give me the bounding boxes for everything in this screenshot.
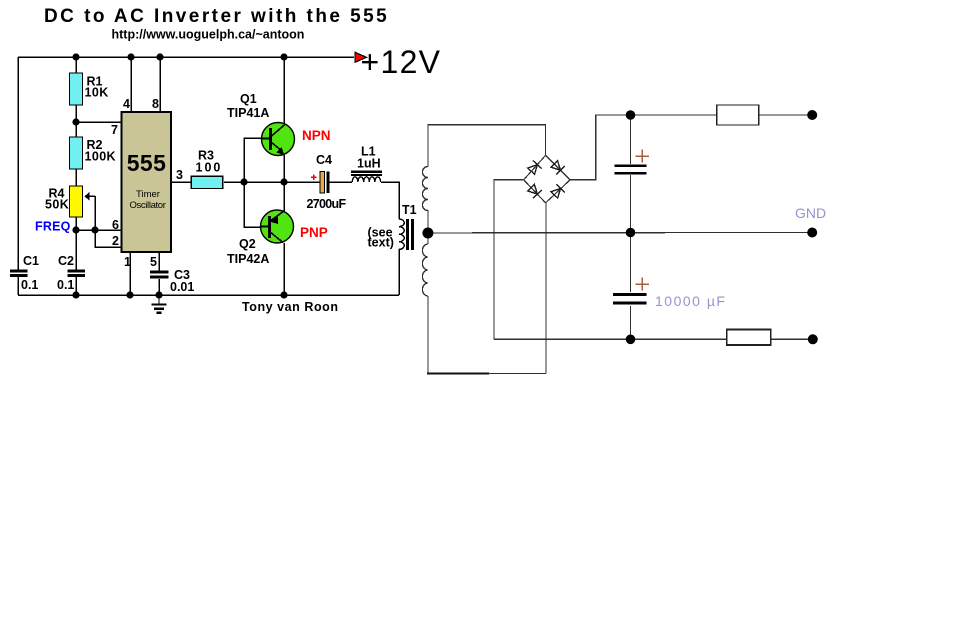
fuse F2 bottom: [727, 330, 771, 346]
node dot top rail cap junction: [626, 110, 636, 120]
transistor Q1 TIP41A NPN: [227, 92, 295, 156]
op-amp U1 555 timer chip: [122, 112, 172, 252]
wire top +12V rail: [18, 56, 354, 58]
node dot wiper pin6: [91, 226, 98, 233]
wire bottom rail fuse to terminal: [771, 338, 813, 340]
svg-text:3: 3: [176, 168, 183, 182]
node dot bottom rail cap junction: [626, 335, 636, 345]
node dot top rail pin4: [127, 53, 134, 60]
diode D4 symbol: [550, 184, 565, 199]
svg-text:100K: 100K: [85, 150, 116, 164]
wire bottom rail: [494, 338, 727, 340]
node dot bottom rail pin1: [126, 291, 133, 298]
node dot bottom rail C2: [72, 291, 79, 298]
wire secondary bottom to bridge bottom: [427, 296, 429, 374]
svg-text:C4: C4: [316, 153, 332, 167]
svg-text:TIP41A: TIP41A: [227, 106, 269, 120]
wire R1 branch from top rail: [75, 57, 77, 73]
capacitor filter lower 10000uF: [613, 277, 726, 309]
svg-text:7: 7: [111, 123, 118, 137]
wire bottom rail: [18, 294, 399, 296]
node dot bottom rail ground: [155, 291, 162, 298]
svg-text:555: 555: [127, 150, 167, 176]
wire pin4 drop: [130, 57, 132, 112]
svg-text:NPN: NPN: [302, 128, 331, 143]
wire fuse to terminal: [759, 114, 813, 116]
node dot emitter junction: [280, 178, 287, 185]
svg-text:+12V: +12V: [361, 44, 442, 80]
wire lower filter cap branch: [630, 233, 632, 292]
node dot top rail R1: [72, 53, 79, 60]
node dot base junction: [240, 178, 247, 185]
capacitor C4 2700uF: [307, 153, 347, 211]
svg-text:10000 µF: 10000 µF: [655, 293, 726, 309]
wire secondary top to bridge: [428, 125, 546, 167]
wire R1 to node7: [75, 105, 77, 137]
T1 secondary winding upper: [422, 167, 427, 211]
ground symbol: [152, 295, 167, 313]
bridge rectifier diodes: [524, 155, 570, 203]
svg-text:Timer: Timer: [136, 189, 160, 200]
svg-text:100: 100: [196, 161, 223, 175]
wire secondary lower straight: [427, 238, 429, 244]
diode D4 bottom-right edge: [546, 180, 571, 203]
svg-text:0.1: 0.1: [57, 278, 74, 292]
wire C4 right to L1: [329, 181, 352, 183]
wire pin3 to R3: [171, 181, 191, 183]
transformer T1: [368, 203, 417, 250]
diode D2 top-right edge: [546, 155, 571, 180]
diode D2 symbol: [550, 160, 565, 175]
wire top rail to fuse: [631, 114, 717, 116]
diode D1 symbol: [527, 160, 542, 175]
capacitor C2 0.1: [57, 254, 85, 292]
T1 secondary winding lower: [422, 244, 427, 296]
svg-text:Q2: Q2: [239, 237, 256, 251]
inductor L1 1uH: [351, 145, 382, 182]
wire pin7 from node to chip: [76, 121, 121, 123]
node dot top rail Q1 collector: [280, 53, 287, 60]
svg-text:TIP42A: TIP42A: [227, 252, 269, 266]
svg-text:GND: GND: [795, 205, 826, 221]
svg-text:0.01: 0.01: [170, 280, 194, 294]
resistor R2: [70, 137, 116, 169]
svg-text:5: 5: [150, 255, 157, 269]
svg-text:text): text): [368, 236, 394, 250]
resistor R1: [70, 73, 109, 105]
node dot bottom rail Q2: [280, 291, 287, 298]
potentiometer R4: [45, 186, 95, 217]
node dot R1-R2 junction pin7: [72, 118, 79, 125]
wire left rail lower (C1 bottom to bottom rail): [17, 276, 19, 295]
wire Q1 collector from top rail: [283, 57, 285, 124]
wire secondary upper straight: [427, 210, 429, 228]
wire T1 primary lower lead: [398, 249, 400, 295]
wire L1 to corner down to bottom rail: [381, 182, 399, 219]
svg-text:http://www.uoguelph.ca/~antoon: http://www.uoguelph.ca/~antoon: [112, 28, 305, 42]
svg-text:1: 1: [124, 255, 131, 269]
svg-text:8: 8: [152, 97, 159, 111]
wire R4 to node6 and down to C2: [75, 217, 77, 270]
svg-text:Tony van Roon: Tony van Roon: [242, 300, 339, 314]
wire pin8 drop: [159, 57, 161, 112]
wire upper filter cap branch: [630, 115, 632, 164]
wire Q2 emitter from node: [283, 182, 285, 211]
svg-text:6: 6: [112, 218, 119, 232]
svg-text:0.1: 0.1: [21, 278, 38, 292]
wire left rail upper (to C1 top plate): [17, 57, 19, 270]
svg-text:10K: 10K: [85, 86, 109, 100]
wire pin6 from pot node to chip: [76, 229, 121, 231]
wire Q1 emitter to node: [283, 155, 285, 182]
wire pot wiper vertical and pin2: [95, 196, 121, 247]
node dot T1 center tap: [422, 228, 433, 239]
wire GND center tap rail: [428, 232, 812, 234]
node dot R4 bottom pin6: [72, 226, 79, 233]
terminal dot -output: [808, 334, 818, 344]
svg-text:4: 4: [123, 97, 130, 111]
diode D3 symbol: [527, 184, 542, 199]
svg-text:50K: 50K: [45, 198, 69, 212]
transistor Q2 TIP42A PNP: [227, 210, 294, 266]
svg-text:C1: C1: [23, 254, 39, 268]
terminal dot +output: [807, 110, 817, 120]
diode D3 bottom-left edge: [524, 180, 546, 203]
svg-text:FREQ: FREQ: [35, 220, 71, 234]
wire C3 to bottom rail: [158, 279, 160, 295]
fuse F1 top: [717, 105, 759, 125]
svg-text:C2: C2: [58, 254, 74, 268]
T1 core: [406, 219, 409, 250]
wire pin5 to C3: [158, 252, 160, 271]
node dot top rail pin8: [156, 53, 163, 60]
wire R3 to base node: [224, 181, 320, 183]
svg-text:2700uF: 2700uF: [307, 197, 347, 211]
wire R2 to R4: [75, 169, 77, 186]
svg-text:Oscillator: Oscillator: [129, 200, 165, 211]
svg-text:PNP: PNP: [300, 225, 328, 240]
resistor R3: [191, 149, 223, 189]
T1 primary winding: [399, 219, 404, 249]
wire T1 secondary bottom lead: [427, 372, 489, 374]
wire bridge left down to bottom rail: [494, 180, 524, 339]
svg-text:Q1: Q1: [240, 92, 257, 106]
wire Q2 collector to bottom rail: [283, 243, 285, 295]
wire pin1 drop to bottom rail: [129, 252, 131, 295]
capacitor C1 0.1: [10, 254, 39, 292]
power arrow +12V: [355, 52, 367, 62]
wire bridge right to top rail: [570, 115, 631, 180]
wire Q1 base: [244, 138, 262, 182]
svg-text:DC to AC Inverter with the 555: DC to AC Inverter with the 555: [44, 6, 389, 27]
terminal dot GND output: [807, 228, 817, 238]
wire C2 bottom to bottom rail: [75, 276, 77, 295]
diode D1 top-left edge: [524, 155, 546, 180]
svg-text:1uH: 1uH: [357, 157, 381, 171]
wire Q2 base: [244, 182, 261, 227]
svg-text:T1: T1: [402, 203, 417, 217]
capacitor C3 0.01: [150, 268, 194, 294]
capacitor filter upper: [615, 150, 649, 174]
node dot GND rail cap junction: [626, 228, 636, 238]
svg-text:2: 2: [112, 234, 119, 248]
